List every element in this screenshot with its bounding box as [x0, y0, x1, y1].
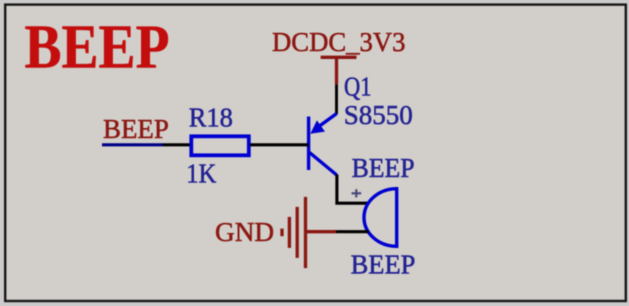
svg-text:BEEP: BEEP	[351, 249, 416, 280]
wire power to emitter	[335, 84, 338, 114]
net label BEEP (buzzer top)	[352, 152, 415, 183]
wire resistor to base	[250, 143, 309, 146]
transistor Q1 (PNP S8550)	[309, 114, 337, 176]
wire collector elbow	[337, 175, 369, 204]
buzzer BEEP	[364, 187, 397, 248]
svg-text:DCDC_3V3: DCDC_3V3	[272, 26, 406, 57]
svg-text:BEEP: BEEP	[352, 152, 415, 183]
ground GND	[215, 197, 336, 268]
title BEEP	[25, 13, 170, 81]
net label BEEP (left)	[103, 113, 169, 144]
wire ground to buzzer	[336, 230, 369, 233]
resistor R18	[191, 136, 249, 155]
svg-text:1K: 1K	[186, 158, 216, 189]
polarity mark +	[352, 189, 362, 197]
svg-text:GND: GND	[215, 216, 274, 247]
designator Q1	[344, 71, 372, 102]
svg-text:BEEP: BEEP	[25, 13, 170, 81]
svg-text:S8550: S8550	[344, 99, 413, 130]
power port DCDC_3V3	[272, 26, 406, 85]
net label BEEP (buzzer bottom)	[351, 249, 416, 280]
wire net stub (navy)	[102, 143, 163, 146]
value 1K	[186, 158, 216, 189]
value S8550	[344, 99, 413, 130]
wire to resistor	[163, 143, 191, 146]
designator R18	[189, 102, 233, 133]
svg-text:Q1: Q1	[344, 71, 372, 102]
svg-text:R18: R18	[189, 102, 233, 133]
svg-text:BEEP: BEEP	[103, 113, 169, 144]
